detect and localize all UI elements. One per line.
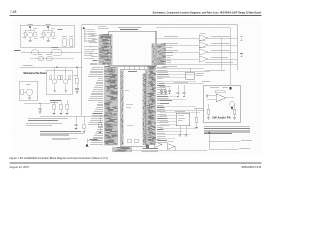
audio PA designator xyxy=(202,81,210,84)
net label SPKR xyxy=(14,49,21,52)
net label 5V RAW xyxy=(23,64,33,67)
resistor network RN1 xyxy=(127,140,149,149)
wire vertical PA output xyxy=(208,132,210,150)
IC U400 outline xyxy=(109,31,156,66)
net labels SB9600 bus xyxy=(92,112,102,115)
bypass caps C45 C46 xyxy=(174,83,188,97)
coupling cap C12 xyxy=(47,55,53,61)
wire branch x88 xyxy=(83,116,86,133)
IC U401 right pin numbers xyxy=(143,74,146,146)
op-amp U3A xyxy=(199,40,208,48)
control head block outline xyxy=(20,25,74,47)
IC U6 xyxy=(186,72,204,79)
label SW B+ xyxy=(58,28,63,31)
op-amp U5A xyxy=(156,56,237,62)
wire 5V RAW rail xyxy=(20,67,82,68)
transistor Q3 xyxy=(50,67,61,92)
page number header xyxy=(10,10,17,14)
connector J2 net labels xyxy=(88,29,97,42)
note extra rows xyxy=(52,138,77,140)
svg-text:August 24, 2007: August 24, 2007 xyxy=(10,165,30,169)
IC U401 left pin numbers xyxy=(121,71,124,146)
transistor Q4 xyxy=(61,67,71,92)
op-amp U8A xyxy=(154,140,162,148)
header title xyxy=(153,11,262,14)
PA note paragraph xyxy=(204,126,250,134)
header rule xyxy=(10,15,262,16)
op-amp U9 power amp xyxy=(210,94,234,102)
feedback resistor R40 xyxy=(215,91,225,93)
IC U400 left pin numbers xyxy=(110,34,113,65)
resistor R42 with ground xyxy=(233,104,236,119)
connector J2 pins xyxy=(83,27,88,42)
wire +5 VOLTS A xyxy=(209,140,252,141)
resistor R33 xyxy=(195,108,198,129)
net labels below J2 xyxy=(84,47,95,59)
svg-text:Figure 7-48. HUE4040A Control: Figure 7-48. HUE4040A Controller Block D… xyxy=(10,156,108,160)
IC U400 left pin labels xyxy=(89,34,112,65)
power symbol 5V a xyxy=(240,37,243,41)
wire top bus xyxy=(156,28,230,85)
wire buffer U2A output xyxy=(208,36,237,38)
wire aux out 2 xyxy=(156,70,225,72)
audio mute box xyxy=(19,81,38,100)
connector pin GND xyxy=(69,37,73,46)
svg-text:6881096C74-B: 6881096C74-B xyxy=(242,165,262,169)
coupling cap C11 xyxy=(38,55,44,61)
transistor Q10 xyxy=(229,101,234,110)
footer date xyxy=(10,165,30,169)
resistor R25 xyxy=(99,116,102,134)
wire audio feed xyxy=(24,103,50,104)
capacitor C21 xyxy=(60,100,63,115)
IC U401 name xyxy=(125,71,137,125)
wire buffer U3A output xyxy=(208,43,237,45)
polarized cap C30 xyxy=(86,139,101,147)
power symbol 5V b xyxy=(240,53,243,57)
RC filter cluster labels xyxy=(50,100,61,103)
label MAINTAINED SWITCH xyxy=(24,72,48,75)
wires U401 to U7 xyxy=(160,113,200,129)
wire +5 VOLTS B xyxy=(209,148,250,149)
wire audio out xyxy=(130,147,207,151)
regulator Q2 (SW B+) xyxy=(40,24,56,42)
audio PA box outline xyxy=(204,85,241,123)
note busy line 1 xyxy=(28,118,68,121)
wire mid bus xyxy=(220,38,222,70)
resistor R22 xyxy=(66,100,69,115)
op-amp U2A xyxy=(199,33,208,41)
wire SB9600 bus xyxy=(40,115,108,117)
net labels below U401 xyxy=(112,147,158,152)
IC U400 right pin numbers xyxy=(152,44,156,66)
IC U401 right pin labels xyxy=(147,67,169,146)
op-amp U8B xyxy=(167,142,175,150)
input caps C50 xyxy=(206,94,210,100)
IC U401 outline xyxy=(120,70,146,146)
capacitor C22 xyxy=(39,104,42,114)
wire speaker xyxy=(21,51,82,53)
ferrite bead E1 xyxy=(31,50,39,55)
wire to buffer U4A xyxy=(156,50,199,52)
capacitor bank xyxy=(160,86,172,94)
connector pin B+ xyxy=(62,37,66,46)
capacitor C15 xyxy=(75,84,79,94)
wires below U7 xyxy=(179,126,188,137)
net labels above U400 xyxy=(98,25,110,29)
wire +5V rail xyxy=(156,108,204,110)
note busy line 2 xyxy=(26,123,62,126)
wire buffer U4A output xyxy=(208,50,237,52)
op-amp U4A xyxy=(199,47,208,55)
wire PA feed xyxy=(160,83,204,85)
wire aux out 1 xyxy=(156,62,237,64)
wire to buffer U2A xyxy=(156,36,199,38)
IC U401 left pin labels xyxy=(88,66,118,145)
IC U7 xyxy=(175,111,190,126)
regulator Q1 (5V RAW) xyxy=(22,24,38,42)
resistor R15 xyxy=(74,67,79,83)
switch interface box xyxy=(46,71,73,95)
footer rule xyxy=(10,162,262,165)
footer part number xyxy=(242,165,262,169)
resistor R41 with ground xyxy=(207,104,210,119)
main board outline xyxy=(82,25,238,117)
figure caption xyxy=(10,156,108,160)
wire audio pair xyxy=(30,58,74,60)
svg-text:Schematics, Component Location: Schematics, Component Location Diagrams,… xyxy=(153,11,262,14)
svg-text:7-58: 7-58 xyxy=(10,10,17,14)
label 5W AUDIO PA xyxy=(212,116,231,120)
resistor R21 xyxy=(53,100,56,115)
interconnect wires U400-U401 xyxy=(124,66,144,70)
audio PA top labels xyxy=(210,87,232,89)
wire branch x78 xyxy=(75,116,78,130)
IC U400 title xyxy=(118,28,141,30)
wires right of U401 xyxy=(157,75,196,139)
wire +5V digital xyxy=(156,66,204,72)
note paragraph xyxy=(40,131,83,135)
net labels right mid xyxy=(160,100,172,104)
IC U400 right pin labels xyxy=(157,44,173,66)
filter FL1 xyxy=(52,47,63,55)
wire to buffer U3A xyxy=(156,43,199,45)
transistor Q5 xyxy=(21,84,33,99)
